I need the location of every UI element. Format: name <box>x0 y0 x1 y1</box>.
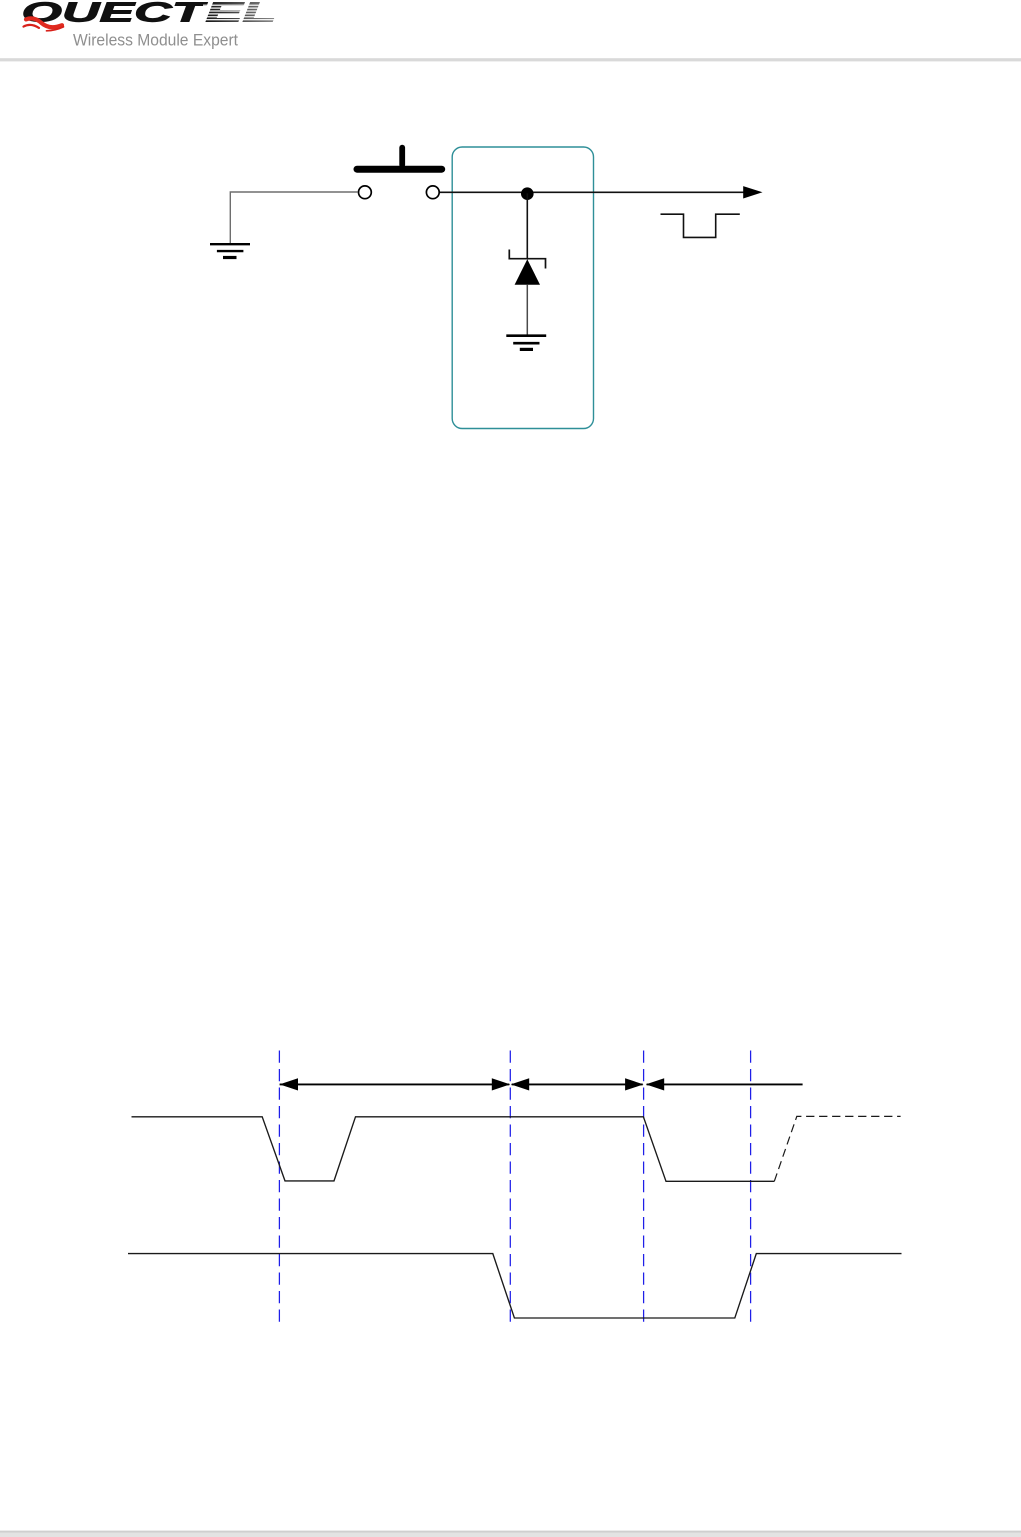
logo red swoosh <box>24 18 64 30</box>
wire PWRKEY from right contact through module to arrow <box>440 191 745 193</box>
timing guide line T4 (blue dashed) <box>750 1051 752 1327</box>
timing guide line T1 (blue dashed) <box>278 1051 280 1327</box>
module outline box (teal) <box>452 147 593 429</box>
footer rule <box>0 1531 1021 1533</box>
zener diode D1 anode triangle <box>515 259 540 285</box>
pulse symbol (active-low) <box>661 214 740 237</box>
timing guide line T3 (blue dashed) <box>643 1051 645 1327</box>
header rule <box>0 58 1021 61</box>
wire junction to zener cathode <box>526 193 528 258</box>
arrowhead right at T3 <box>625 1078 643 1090</box>
ground (left) <box>210 244 250 257</box>
zener diode D1 cathode bar <box>509 250 545 269</box>
measurement arrow shaft segment 3 <box>647 1083 803 1085</box>
node junction dot <box>521 187 534 200</box>
push button S1 right contact <box>426 186 439 199</box>
arrowhead left at T3 <box>646 1078 664 1090</box>
push button S1 stem <box>399 145 405 168</box>
arrowhead left at T1 <box>280 1078 298 1090</box>
arrowhead <box>743 186 762 198</box>
waveform PWRKEY (top) dashed tail <box>774 1116 900 1181</box>
push button S1 left contact <box>359 186 372 199</box>
timing guide line T2 (blue dashed) <box>509 1051 511 1327</box>
waveform VDD_EXT (bottom) <box>128 1254 902 1318</box>
push button S1 actuator bar <box>354 166 446 173</box>
measurement arrow shaft segment 2 <box>512 1083 643 1085</box>
waveform PWRKEY (top) solid <box>132 1117 775 1182</box>
arrowhead right at T2 <box>492 1078 510 1090</box>
measurement arrow shaft segment 1 <box>280 1083 510 1085</box>
wire zener anode to ground <box>526 285 528 335</box>
logo wordmark EL (striped) <box>203 0 281 28</box>
ground (inside module) <box>506 336 546 350</box>
svg-text:OUECT: OUECT <box>22 0 209 28</box>
svg-text:Wireless Module Expert: Wireless Module Expert <box>73 32 238 50</box>
wire from left contact to ground <box>230 192 357 244</box>
arrowhead left at T2 <box>511 1078 529 1090</box>
